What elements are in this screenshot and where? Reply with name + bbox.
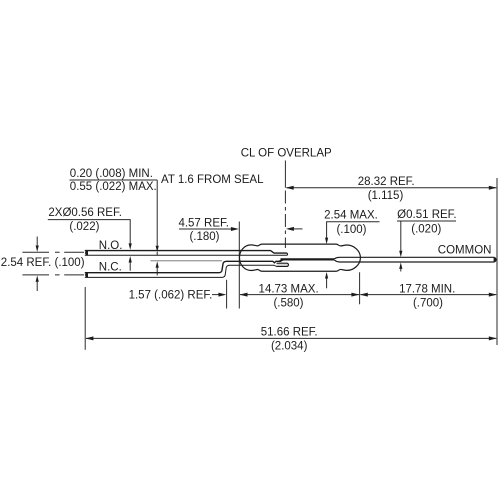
node contact junction blob bbox=[280, 259, 284, 261]
svg-text:(.022): (.022) bbox=[69, 221, 99, 233]
svg-text:17.78 MIN.: 17.78 MIN. bbox=[399, 283, 455, 295]
svg-text:(.100): (.100) bbox=[336, 224, 366, 236]
node arrowhead 17.78 left bbox=[360, 293, 368, 297]
node arrowhead 51.66 right bbox=[489, 336, 497, 340]
wire 2X0.56 leader underline and drop bbox=[48, 220, 130, 244]
wire 2.54 REF top arrow line bbox=[36, 237, 38, 246]
svg-text:4.57 REF.: 4.57 REF. bbox=[178, 218, 229, 230]
wire underline between MIN and MAX rows bbox=[70, 179, 158, 181]
wire 28.32 dimension line bbox=[286, 187, 496, 189]
wire 0.51 leader underline and drop bbox=[397, 221, 456, 251]
node arrowhead 4.57 right (points left at CL) bbox=[286, 227, 294, 231]
wire 17.78 dimension line bbox=[360, 294, 496, 296]
node arrowhead 2X0.56 tip at N.O. lead bbox=[129, 243, 132, 250]
lead N.C. blade tip bbox=[277, 263, 289, 266]
svg-text:CL OF OVERLAP: CL OF OVERLAP bbox=[241, 147, 332, 159]
node arrowhead 0.55 up (at projected N.C. line) bbox=[156, 261, 159, 268]
wire 0.51 bottom tail bbox=[400, 269, 402, 272]
svg-text:0.55 (.022) MAX.: 0.55 (.022) MAX. bbox=[70, 181, 157, 193]
wire 2.54 MAX leader underline and drop bbox=[327, 222, 380, 238]
lead N.O. right end cap bbox=[286, 253, 289, 255]
svg-text:1.57 (.062) REF.: 1.57 (.062) REF. bbox=[129, 290, 213, 302]
svg-text:14.73 MAX.: 14.73 MAX. bbox=[259, 283, 319, 295]
node arrowhead 14.73 left bbox=[240, 293, 248, 297]
wire 2.54 REF bottom arrow line bbox=[36, 282, 38, 291]
wire 4.57 leader line with right arrow bbox=[179, 228, 232, 230]
lead COMMON right end cap bbox=[494, 257, 497, 263]
svg-text:N.C.: N.C. bbox=[99, 262, 122, 274]
wire projected N.C. top line (thin) bbox=[151, 260, 223, 262]
node arrowhead 2.54 REF down bbox=[36, 245, 39, 252]
node arrowhead 4.57 left (points right at seal line) bbox=[231, 227, 239, 231]
wire leader from 0.55 MAX label down to N.O. lead bbox=[156, 180, 158, 247]
lead N.O. top line with step bbox=[85, 251, 287, 254]
node arrowhead 28.32 left bbox=[286, 186, 294, 190]
lead COMMON bottom line bbox=[335, 260, 494, 262]
svg-text:0.20 (.008) MIN.: 0.20 (.008) MIN. bbox=[70, 168, 153, 180]
svg-text:AT 1.6 FROM SEAL: AT 1.6 FROM SEAL bbox=[161, 174, 264, 186]
wire right extension line bbox=[496, 178, 498, 345]
node arrowhead 17.78 right bbox=[489, 293, 497, 297]
svg-text:Ø0.51 REF.: Ø0.51 REF. bbox=[397, 209, 456, 221]
node CL centerline solid segment bbox=[284, 161, 286, 188]
wire extension line at capsule left end bbox=[238, 222, 240, 309]
svg-text:51.66 REF.: 51.66 REF. bbox=[261, 327, 318, 339]
wire 14.73 dimension line bbox=[240, 294, 359, 296]
node arrowhead 28.32 right bbox=[489, 186, 497, 190]
node arrowhead 2.54 REF up bbox=[36, 275, 39, 282]
node arrowhead 2.54 MAX bottom (up at capsule bottom) bbox=[325, 272, 328, 279]
lead N.C. bottom line with jog up bbox=[85, 265, 287, 277]
node arrowhead leader tip at N.O. lead bbox=[156, 246, 159, 253]
lead COMMON top line bbox=[335, 257, 494, 259]
svg-text:(1.115): (1.115) bbox=[368, 190, 404, 202]
wire 0.55 up arrow tail bbox=[156, 267, 158, 275]
svg-text:(.020): (.020) bbox=[411, 224, 441, 236]
lead N.O. bottom line bbox=[85, 254, 287, 256]
svg-text:(.580): (.580) bbox=[273, 297, 303, 309]
blade common overlap bar bbox=[281, 258, 335, 260]
svg-text:2XØ0.56 REF.: 2XØ0.56 REF. bbox=[48, 207, 122, 219]
svg-text:(.180): (.180) bbox=[189, 231, 219, 243]
node CL centerline dashed bbox=[284, 191, 286, 249]
node arrowhead 0.51 top (down at lead top) bbox=[399, 251, 402, 258]
wire 2.54 MAX bottom tail bbox=[326, 278, 328, 288]
svg-text:2.54 MAX.: 2.54 MAX. bbox=[324, 209, 378, 221]
node arrowhead 0.51 bottom (up at lead bottom) bbox=[399, 262, 402, 269]
wire extension line at capsule right end bbox=[359, 272, 361, 304]
svg-text:2.54 REF. (.100): 2.54 REF. (.100) bbox=[1, 257, 85, 269]
lead N.C. left end cap bbox=[85, 272, 88, 278]
svg-text:28.32 REF.: 28.32 REF. bbox=[358, 176, 415, 188]
node arrowhead 2X0.56 up (below N.O. lead) bbox=[129, 256, 132, 263]
wire 1.57 extension line bbox=[226, 280, 228, 309]
wire 0.55 arrow overshoot bbox=[156, 252, 158, 255]
wire 4.57 right arrow tail bbox=[294, 228, 303, 230]
wire 51.66 dimension line bbox=[86, 337, 496, 339]
svg-text:(2.034): (2.034) bbox=[271, 341, 308, 353]
wire 2X0.56 up arrow tail bbox=[129, 262, 131, 271]
svg-text:(.700): (.700) bbox=[413, 297, 443, 309]
capsule glass body outline bbox=[240, 244, 361, 271]
svg-text:COMMON: COMMON bbox=[438, 244, 492, 256]
node arrowhead 51.66 left bbox=[85, 336, 93, 340]
node N.C. centerline dashes bbox=[22, 274, 84, 276]
lead N.O. left end cap bbox=[85, 250, 88, 256]
node arrowhead 14.73 right bbox=[351, 293, 359, 297]
node N.O. centerline dashes bbox=[22, 251, 84, 253]
wire 1.57 leader tail bbox=[212, 294, 220, 296]
node arrowhead 1.57 (points right) bbox=[218, 293, 226, 297]
wire left extension line bbox=[84, 287, 86, 350]
node arrowhead 2.54 MAX top (down at capsule top) bbox=[325, 238, 328, 245]
lead N.C. top line with jog up bbox=[85, 259, 283, 272]
